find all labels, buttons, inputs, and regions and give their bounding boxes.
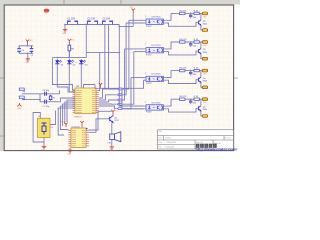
svg-text:R4 4.7K: R4 4.7K xyxy=(180,68,188,70)
wire opto input feeds xyxy=(131,77,144,79)
wire Q emitter to terminal xyxy=(201,111,202,116)
svg-text:4: 4 xyxy=(145,101,146,103)
junction xyxy=(190,70,192,72)
svg-text:3: 3 xyxy=(145,73,146,75)
wire Q emitter to terminal xyxy=(201,82,202,87)
U1 pin names xyxy=(76,91,95,113)
resistor R1 xyxy=(68,44,71,58)
svg-text:8550: 8550 xyxy=(203,109,207,111)
wire net tag xyxy=(99,106,117,109)
wire Q collector to rail xyxy=(200,42,202,49)
capacitor C2 xyxy=(87,21,98,24)
speaker LS1 xyxy=(110,132,121,142)
capacitor C5 xyxy=(30,46,34,54)
wire LED1 down xyxy=(57,64,75,92)
svg-text:R 1K: R 1K xyxy=(194,68,199,70)
U2 pin names xyxy=(72,131,85,146)
svg-text:Size: Size xyxy=(159,137,163,139)
svg-text:R3 4.7K: R3 4.7K xyxy=(180,39,188,41)
wire cap rail drop mid3 xyxy=(108,25,110,89)
capacitor C9 xyxy=(190,13,192,15)
wire opto to rail xyxy=(166,99,171,106)
wire mid horizontal channel xyxy=(86,52,119,54)
svg-text:U4 TLP521: U4 TLP521 xyxy=(152,45,161,47)
wire LED2 down xyxy=(69,64,75,92)
IC U1 body xyxy=(75,88,96,114)
optocoupler U5 box xyxy=(146,76,164,81)
wire nested bends to U2 bus xyxy=(67,100,75,122)
wire Q emitter to terminal xyxy=(201,54,202,59)
wire S1 right xyxy=(50,111,56,125)
S1 symbol xyxy=(42,123,47,135)
bus vertical F xyxy=(122,52,134,105)
wire LED3 down xyxy=(80,64,82,88)
resistor R9 xyxy=(194,98,199,100)
svg-text:C1 104: C1 104 xyxy=(68,18,76,20)
svg-text:R 1K: R 1K xyxy=(194,10,199,12)
svg-text:R2 4.7K: R2 4.7K xyxy=(180,10,188,12)
U3 pins xyxy=(144,20,167,23)
svg-text:8550: 8550 xyxy=(203,81,207,83)
optocoupler U4 box xyxy=(146,48,164,53)
wire opto input feeds xyxy=(119,105,143,107)
svg-text:104: 104 xyxy=(193,103,196,105)
svg-text:104: 104 xyxy=(193,45,196,47)
transistor Q5 xyxy=(110,116,113,123)
capacitor C6 xyxy=(45,92,47,96)
capacitor C12 xyxy=(190,99,192,101)
svg-text:8550: 8550 xyxy=(203,23,207,25)
svg-text:2: 2 xyxy=(145,44,146,46)
terminal J2b xyxy=(202,57,208,60)
LED D3 xyxy=(79,59,86,64)
svg-text:PC817: PC817 xyxy=(146,26,152,28)
wire LED rail left drop xyxy=(52,58,75,90)
wire VCC vertical xyxy=(132,13,134,27)
svg-text:PC817: PC817 xyxy=(146,112,152,114)
wire net tag xyxy=(99,100,117,102)
svg-text:104: 104 xyxy=(193,74,196,76)
wire U1 pin1 up channel xyxy=(98,53,101,91)
wire crystal rails xyxy=(22,93,56,95)
svg-text:1: 1 xyxy=(145,16,146,18)
transistor Q1 xyxy=(199,20,201,25)
wire net tag xyxy=(99,95,117,100)
wire net tag xyxy=(99,89,117,98)
terminal J2a xyxy=(202,41,208,44)
U5 pins xyxy=(144,78,167,81)
capacitor C1 xyxy=(67,21,78,24)
ground below U2 xyxy=(69,148,71,149)
transistor Q3 xyxy=(199,77,201,82)
wire opto bottom loop to base xyxy=(166,108,198,112)
junction xyxy=(190,41,192,43)
wire opto bottom loop to base xyxy=(166,51,198,55)
bus vertical C xyxy=(122,20,129,89)
wire Q5 emitter down xyxy=(111,123,113,134)
wire Q collector to rail xyxy=(200,99,202,106)
junction xyxy=(190,13,192,15)
wire cap rail drop mid1 xyxy=(85,25,87,53)
ground decoupling xyxy=(27,53,29,57)
bus vertical E xyxy=(122,49,125,100)
svg-text:PC817: PC817 xyxy=(146,83,152,85)
power VCC above U2 right xyxy=(80,121,83,126)
wire crystal to U1 xyxy=(56,90,60,94)
wire LED rail xyxy=(52,57,86,59)
wire U2 to speaker net xyxy=(89,111,112,130)
wire LED rail right up xyxy=(85,53,87,58)
svg-text:Date:: Date: xyxy=(159,141,164,144)
wire Q collector to rail xyxy=(200,71,202,78)
svg-text:R9: R9 xyxy=(51,127,53,129)
title Chinese text xyxy=(196,144,200,148)
svg-text:Number: Number xyxy=(165,137,172,139)
svg-text:Title: Title xyxy=(159,130,163,133)
svg-text:PC817: PC817 xyxy=(146,54,152,56)
terminal J4b xyxy=(202,115,208,118)
U1 pins xyxy=(73,91,99,113)
wire loop S1 xyxy=(33,113,44,143)
resistor R7 xyxy=(194,41,199,43)
wire net tag xyxy=(99,103,117,105)
resistor R8 xyxy=(194,69,199,71)
svg-text:U2 24C02: U2 24C02 xyxy=(72,126,80,128)
junction decoupling xyxy=(27,45,29,47)
title block table xyxy=(158,130,234,149)
svg-text:8-May-2005: 8-May-2005 xyxy=(167,142,177,144)
svg-text:C6 30p: C6 30p xyxy=(43,90,50,92)
power VCC decoupling xyxy=(26,40,29,45)
svg-text:C7 30p: C7 30p xyxy=(43,106,50,108)
wire Q collector to rail xyxy=(200,13,202,20)
power VCC on fan xyxy=(99,83,102,88)
junction xyxy=(190,98,192,100)
power VCC speaker xyxy=(111,110,114,115)
svg-text:http://www.cndzz.com/: http://www.cndzz.com/ xyxy=(196,147,239,152)
terminal J1b xyxy=(202,29,208,32)
svg-text:U5 TLP521: U5 TLP521 xyxy=(152,74,161,76)
wire opto input feeds xyxy=(129,19,144,21)
svg-text:104: 104 xyxy=(193,17,196,19)
resistor R6 xyxy=(194,12,199,14)
transistor Q4 xyxy=(199,106,201,111)
svg-text:AT89C51: AT89C51 xyxy=(75,115,82,118)
red stamp mark xyxy=(44,9,50,13)
wire opto to rail xyxy=(166,71,171,78)
wire opto bottom loop to base xyxy=(166,80,198,84)
capacitor C4 xyxy=(17,46,21,54)
wire cap bank rail xyxy=(65,24,119,26)
junction U2 right xyxy=(86,128,87,129)
junctions on cap rail xyxy=(64,24,66,26)
wire opto to rail xyxy=(166,13,171,20)
bus vertical A xyxy=(119,25,143,107)
U2 pins xyxy=(68,131,89,146)
svg-text:R 1K: R 1K xyxy=(194,96,199,98)
wire opto to rail xyxy=(166,42,171,49)
power VCC above U2 left xyxy=(64,123,67,128)
capacitor C11 xyxy=(190,71,192,73)
svg-text:U3 TLP521: U3 TLP521 xyxy=(152,17,161,19)
transistor Q2 xyxy=(199,49,201,54)
optocoupler U3 box xyxy=(146,19,164,24)
svg-text:R5 4.7K: R5 4.7K xyxy=(180,96,188,98)
bus vertical D xyxy=(122,23,126,95)
svg-text:9012: 9012 xyxy=(115,120,119,122)
svg-text:File:: File: xyxy=(159,147,163,149)
svg-text:U6 TLP521: U6 TLP521 xyxy=(152,102,161,104)
terminal J3a xyxy=(202,69,208,72)
wire U1 top feed xyxy=(84,85,96,89)
component S1 yellow body xyxy=(38,118,51,137)
terminal J4a xyxy=(202,98,208,101)
terminal J1a xyxy=(202,12,208,15)
svg-text:8550: 8550 xyxy=(203,52,207,54)
ground speaker xyxy=(111,140,113,146)
wire Q emitter to terminal xyxy=(201,25,202,30)
svg-text:C2 104: C2 104 xyxy=(88,18,96,20)
capacitor C10 xyxy=(190,42,192,44)
LED D2 xyxy=(67,59,74,64)
capacitor C7 xyxy=(45,100,47,104)
optocoupler U6 box xyxy=(146,105,164,110)
svg-text:Revision: Revision xyxy=(225,137,231,139)
net tag XTAL1 xyxy=(19,88,24,92)
IC U2 body xyxy=(71,128,86,148)
terminal J3b xyxy=(202,86,208,89)
resistor R2 xyxy=(171,12,202,14)
wire opto input feeds xyxy=(125,48,144,50)
svg-text:Sheet of: Sheet of xyxy=(196,141,203,144)
LED D1 xyxy=(55,59,62,64)
ground S1 xyxy=(43,142,45,145)
svg-text:F:\dzfsy.ddb: F:\dzfsy.ddb xyxy=(165,147,175,149)
bus vertical G xyxy=(122,78,131,109)
wire opto bottom loop to base xyxy=(166,23,198,27)
wire cap rail drop mid2 xyxy=(104,25,106,89)
wire long horizontal channel y88 xyxy=(95,80,144,88)
wire decoupling rails xyxy=(27,44,29,46)
net tag XTAL2 xyxy=(19,96,24,100)
resistor R4 xyxy=(171,70,202,72)
ground cap bank xyxy=(64,25,66,29)
power VCC above R1 xyxy=(68,39,71,44)
resistor R3 xyxy=(171,41,202,43)
resistor R5 xyxy=(171,98,202,100)
power symbol below tags xyxy=(17,103,21,106)
U4 pins xyxy=(144,49,167,52)
svg-text:C3 104: C3 104 xyxy=(103,18,111,20)
power VCC net top xyxy=(132,9,135,14)
capacitor C3 xyxy=(102,21,113,24)
bus vertical B xyxy=(122,88,144,109)
svg-text:R 1K: R 1K xyxy=(194,39,199,41)
U6 pins xyxy=(144,106,167,109)
crystal Y1 xyxy=(49,95,52,101)
